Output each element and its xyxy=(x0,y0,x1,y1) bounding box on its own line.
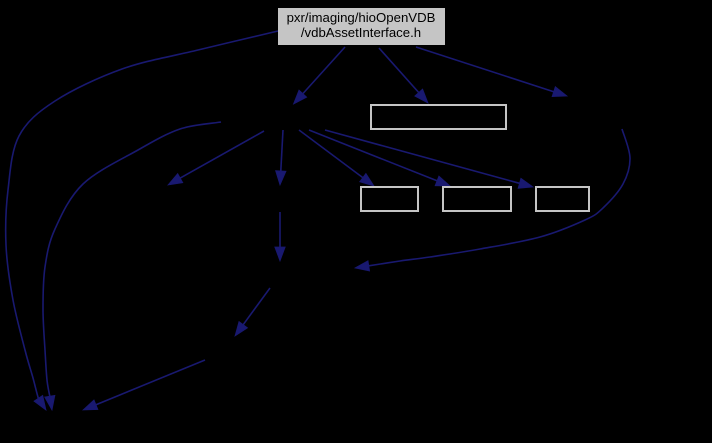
box B (include node, label hidden) xyxy=(361,187,418,211)
edge: node M -> node N xyxy=(235,288,270,336)
box D (include node, label hidden) xyxy=(536,187,589,211)
svg-text:pxr/imaging/hioOpenVDB: pxr/imaging/hioOpenVDB xyxy=(287,10,436,25)
edge: node H -> box D xyxy=(325,130,533,188)
edge: node N -> node P xyxy=(83,360,205,410)
box A (include node, label hidden) xyxy=(371,105,506,129)
edge: root -> node H xyxy=(294,47,346,104)
edge: node C1 -> node M xyxy=(275,212,285,261)
box C (include node, label hidden) xyxy=(443,187,511,211)
edge: root -> box A xyxy=(379,48,428,103)
svg-text:/vdbAssetInterface.h: /vdbAssetInterface.h xyxy=(301,25,421,40)
edge: node H -> node L xyxy=(168,131,264,185)
edge: node H -> node P (inner left curve) xyxy=(43,122,221,410)
edge: node H -> box C xyxy=(309,130,450,186)
edge: node H -> box B xyxy=(299,130,374,186)
edge: node H -> node C1 xyxy=(276,130,286,185)
edge: node R -> node M (right curve) xyxy=(355,129,630,271)
root node: pxr/imaging/hioOpenVDB/vdbAssetInterface.h xyxy=(278,8,445,45)
edge: root -> node R xyxy=(416,47,567,97)
edge: root -> node P (long outer left curve) xyxy=(6,31,278,410)
